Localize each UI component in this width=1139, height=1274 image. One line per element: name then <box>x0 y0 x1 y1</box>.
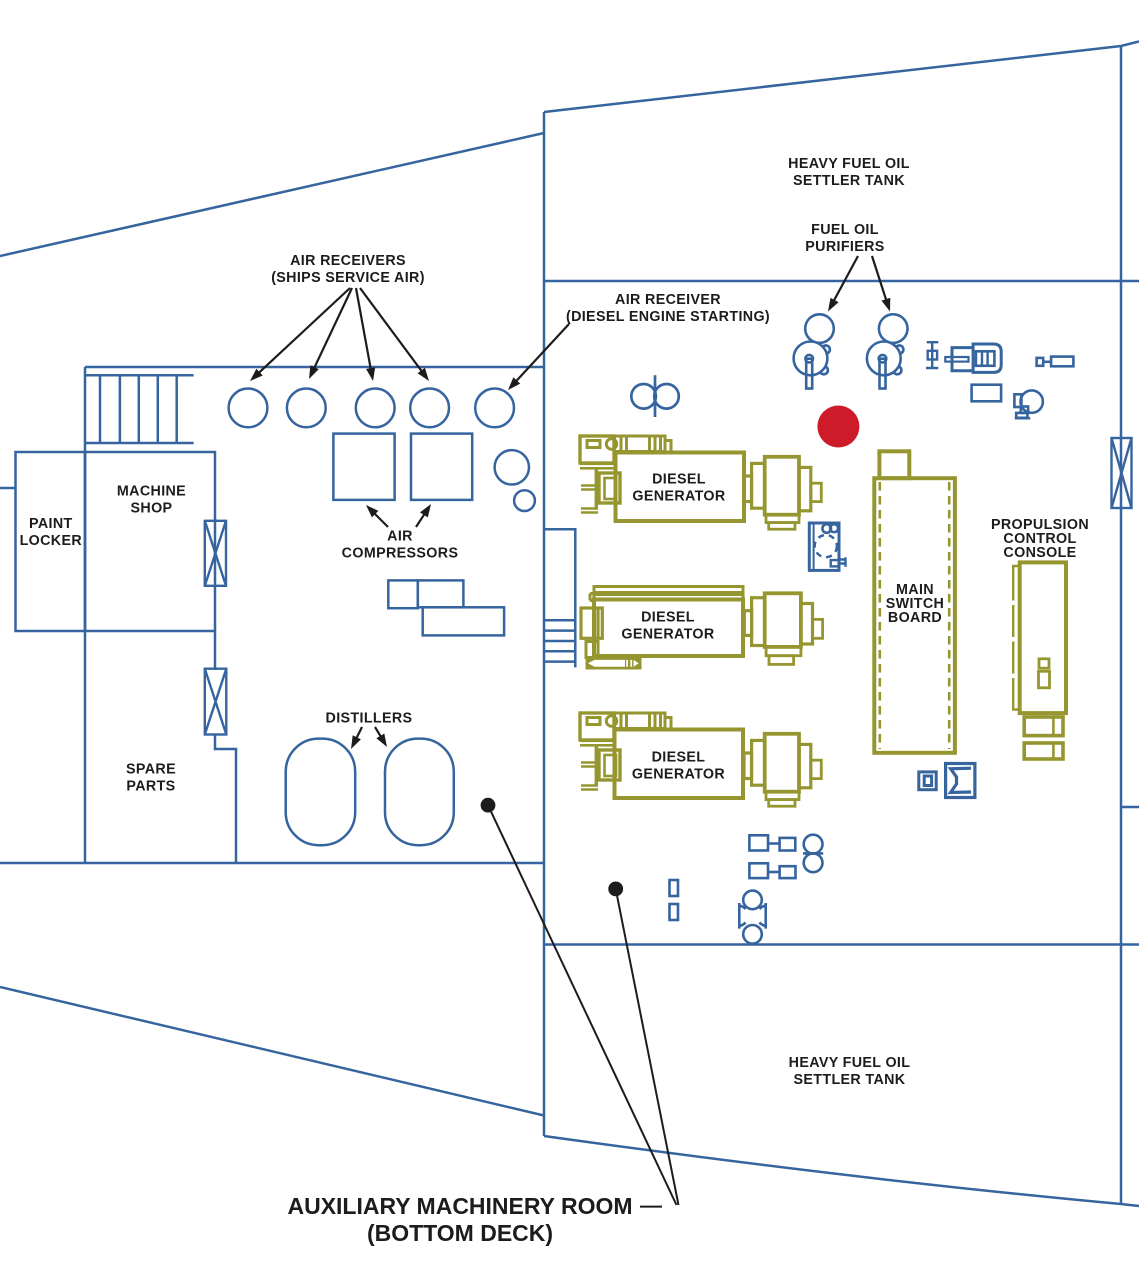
svg-text:DIESEL: DIESEL <box>652 750 706 766</box>
svg-text:SETTLER TANK: SETTLER TANK <box>794 1072 906 1088</box>
fuel oil purifier 1 <box>794 314 834 388</box>
svg-text:DIESEL: DIESEL <box>652 472 706 488</box>
butterfly vent symbol <box>631 375 679 417</box>
distiller 2 <box>385 739 454 846</box>
arrow to receiver 2 <box>313 288 352 370</box>
diesel generator 1 alternator <box>744 457 821 529</box>
propulsion control console <box>1013 562 1066 759</box>
svg-text:DIESEL: DIESEL <box>641 610 695 626</box>
arrow to compressor 1 <box>373 512 388 527</box>
air receiver 2 <box>287 389 326 428</box>
diesel generator 1 cylinder strip <box>615 436 672 452</box>
step rect low <box>423 607 504 635</box>
air receiver 1 <box>229 389 268 428</box>
paint locker left stub <box>0 487 16 490</box>
svg-text:AIR RECEIVERS: AIR RECEIVERS <box>290 253 406 269</box>
left wall x85 <box>84 367 87 863</box>
diesel generator 3 cylinder strip <box>615 713 672 729</box>
console bracket unit <box>946 764 975 798</box>
left room top wall <box>85 366 544 369</box>
svg-text:(DIESEL ENGINE STARTING): (DIESEL ENGINE STARTING) <box>566 309 770 325</box>
center bulkhead wall <box>543 112 546 1136</box>
arrow to purifier 1 <box>833 256 858 303</box>
arrow to receiver 3 <box>356 288 371 371</box>
spare parts wall <box>215 631 236 863</box>
valve V1 machine shop wall <box>205 521 226 586</box>
svg-text:PURIFIERS: PURIFIERS <box>805 239 884 255</box>
svg-text:PAINT: PAINT <box>29 516 73 532</box>
svg-text:AIR: AIR <box>387 529 413 545</box>
air receiver 3 <box>356 389 395 428</box>
diesel generator 1 engine block <box>580 436 620 511</box>
aux circle small <box>514 490 535 511</box>
svg-text:(BOTTOM DECK): (BOTTOM DECK) <box>367 1220 553 1246</box>
pump motor assembly <box>945 344 1001 372</box>
step rect mid <box>418 580 464 607</box>
svg-text:AUXILIARY MACHINERY ROOM: AUXILIARY MACHINERY ROOM <box>287 1193 632 1219</box>
svg-text:GENERATOR: GENERATOR <box>621 627 715 643</box>
step rect small <box>388 580 418 608</box>
fuel oil purifier 2 <box>867 314 908 388</box>
svg-text:GENERATOR: GENERATOR <box>632 767 726 783</box>
arrow to receiver 5 <box>515 324 569 383</box>
arrow to purifier 2 <box>872 256 887 302</box>
svg-text:(SHIPS SERVICE AIR): (SHIPS SERVICE AIR) <box>271 270 425 286</box>
hull lower-left diagonal <box>0 987 544 1116</box>
diesel generator 2 body <box>594 600 743 657</box>
red locator dot <box>817 406 859 448</box>
air receiver 4 <box>410 389 449 428</box>
main switchboard <box>874 451 955 753</box>
svg-text:BOARD: BOARD <box>888 610 942 626</box>
diesel generator 2 silencer boat <box>586 642 642 670</box>
black dot 1 <box>481 798 496 813</box>
stair ladder top-left <box>85 375 193 443</box>
svg-text:HEAVY FUEL OIL: HEAVY FUEL OIL <box>788 156 910 172</box>
svg-text:DISTILLERS: DISTILLERS <box>326 711 413 727</box>
aux circle large <box>495 450 529 484</box>
console sq-in-sq <box>919 772 936 790</box>
hull lower-right diagonal <box>544 1136 1139 1206</box>
diesel generator 2 top rails <box>590 587 743 601</box>
svg-text:COMPRESSORS: COMPRESSORS <box>342 546 459 562</box>
diesel generator 2 left box <box>581 608 602 638</box>
starboard wall <box>1120 46 1123 1204</box>
valve V3 starboard wall <box>1112 438 1132 508</box>
arrow to distiller 2 <box>375 727 382 739</box>
svg-text:GENERATOR: GENERATOR <box>632 489 726 505</box>
leader line from dot1 <box>488 805 677 1205</box>
hull upper-left diagonal <box>0 133 544 256</box>
valve V2 spare parts wall <box>205 669 227 735</box>
transfer pump pair A <box>749 835 795 850</box>
svg-text:SHOP: SHOP <box>131 501 173 517</box>
paint locker room <box>16 452 86 631</box>
air compressor 2 <box>411 434 472 500</box>
wall tick y807 <box>1120 806 1139 809</box>
diesel generator 3 engine block <box>580 713 620 788</box>
diesel generator 1 body <box>616 453 745 522</box>
small cell 2 <box>670 904 679 920</box>
left room bottom wall <box>0 862 544 865</box>
svg-text:FUEL OIL: FUEL OIL <box>811 222 879 238</box>
deck line y281 <box>544 280 1139 283</box>
svg-text:SETTLER TANK: SETTLER TANK <box>793 173 905 189</box>
svg-text:PARTS: PARTS <box>126 779 175 795</box>
svg-text:AIR RECEIVER: AIR RECEIVER <box>615 292 721 308</box>
diesel generator 3 alternator <box>744 734 821 806</box>
distiller 1 <box>286 739 356 846</box>
gauge link symbol <box>1037 357 1074 367</box>
diesel generator 3 body <box>615 730 744 799</box>
center wall stair recess <box>545 529 576 667</box>
leader line from dot2 <box>616 889 679 1205</box>
diesel generator 2 alternator <box>744 593 822 664</box>
arrow to receiver 4 <box>360 288 423 373</box>
arrow to compressor 2 <box>416 512 426 527</box>
deck line y944 <box>544 943 1139 946</box>
pump w circle unit <box>1014 390 1042 418</box>
svg-text:HEAVY FUEL OIL: HEAVY FUEL OIL <box>789 1055 911 1071</box>
svg-text:MACHINE: MACHINE <box>117 484 186 500</box>
arrow to distiller 1 <box>355 727 362 740</box>
arrow to receiver 1 <box>257 288 350 374</box>
air compressor 1 <box>333 434 394 500</box>
transfer pump pair B <box>749 863 795 878</box>
air receiver 5 <box>475 389 514 428</box>
heat exchanger unit w dashed circle <box>809 523 845 570</box>
plain rect unit <box>972 385 1002 402</box>
vertical pump unit <box>739 891 765 944</box>
machine shop room <box>85 452 215 631</box>
title dash <box>640 1206 662 1208</box>
small cell 1 <box>670 880 679 896</box>
black dot 2 <box>608 882 623 897</box>
svg-text:CONSOLE: CONSOLE <box>1003 545 1076 561</box>
hull upper-right diagonal <box>544 42 1139 113</box>
svg-text:LOCKER: LOCKER <box>20 533 83 549</box>
twin bottles <box>803 835 823 873</box>
injector bolt symbol <box>926 342 938 368</box>
svg-text:SPARE: SPARE <box>126 762 176 778</box>
